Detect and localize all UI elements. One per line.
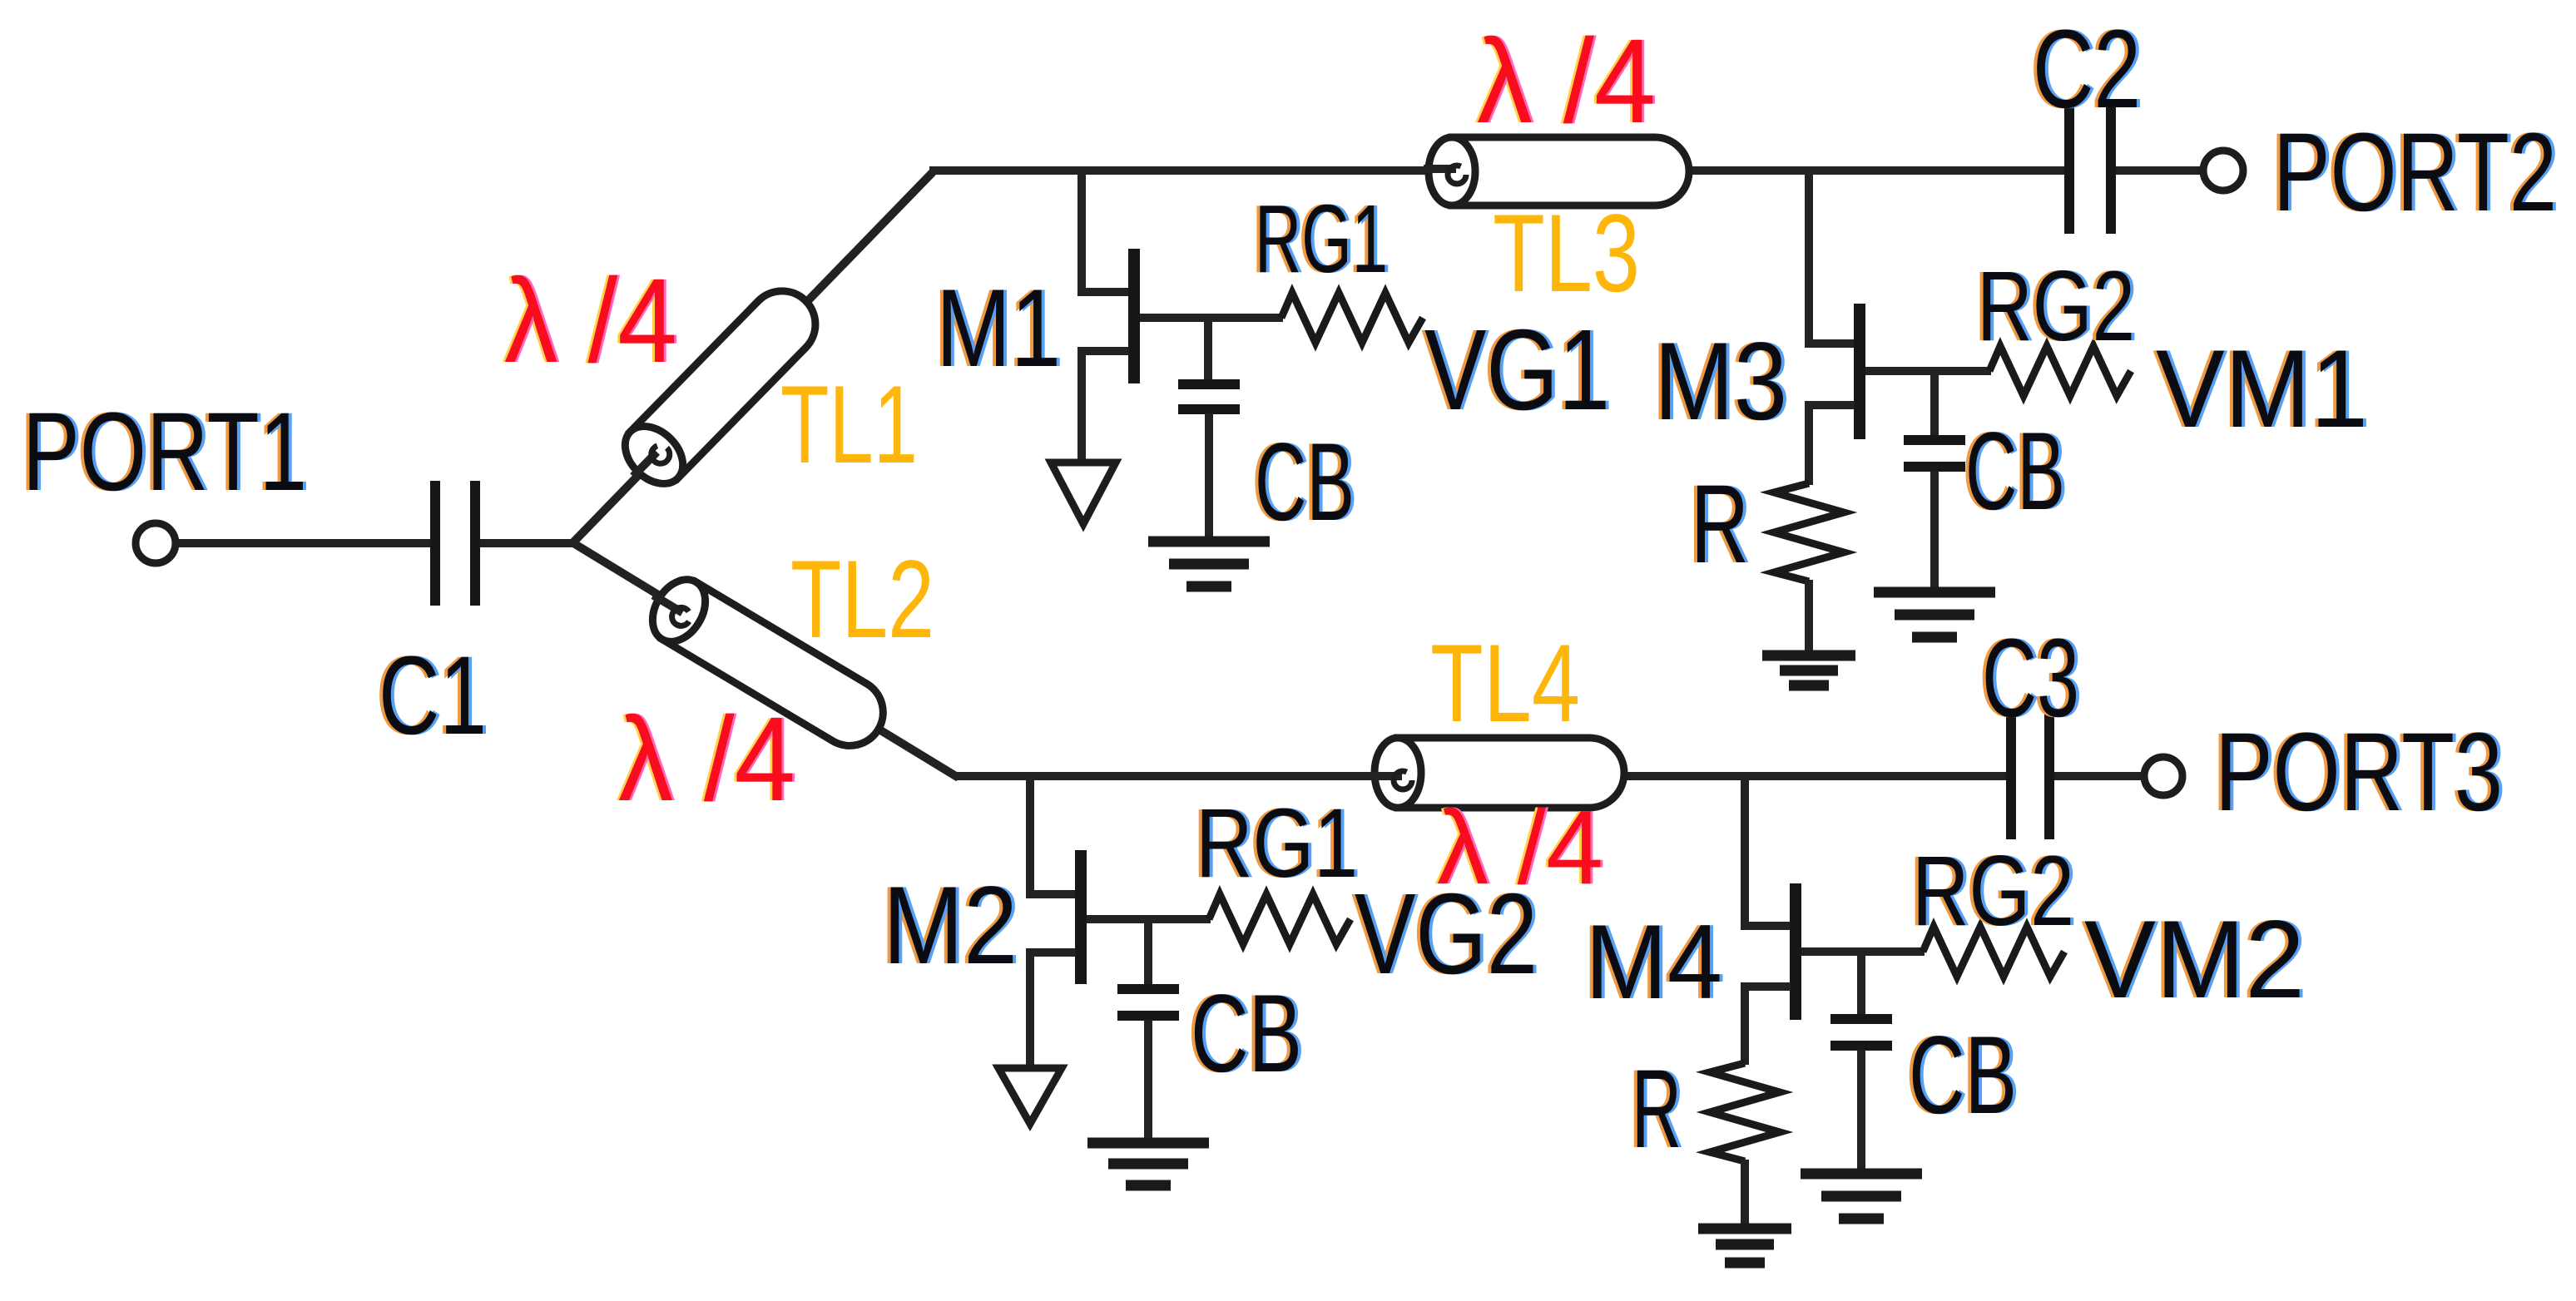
ground arrow at M1 source [1051, 463, 1116, 524]
wire M1 gate to CB [1204, 318, 1212, 381]
label R M4 [1628, 1047, 1685, 1171]
label PORT2 [2270, 111, 2560, 235]
wire M3 gate to CB [1930, 371, 1939, 437]
capacitor C3 [2011, 713, 2049, 839]
capacitor CB (M1) [1178, 384, 1240, 540]
label C1 [375, 634, 490, 758]
transmission line TL2 [637, 566, 896, 758]
svg-text:TL4: TL4 [1430, 622, 1580, 745]
wire top rail [929, 166, 2067, 175]
label CB M1 [1251, 421, 1358, 544]
label RG1 bottom [1192, 789, 1361, 898]
ground under CB (M1) [1148, 542, 1270, 586]
wire bottom rail [955, 772, 2008, 780]
label M2 [879, 864, 1021, 987]
transistor M3 [1809, 171, 1991, 485]
label lambda/4 TL3 [1474, 14, 1658, 148]
label CB M4 [1905, 1014, 2020, 1137]
label TL3 [1493, 192, 1640, 315]
resistor R (M3) [1774, 483, 1844, 652]
wire C1 to junction node [479, 539, 574, 547]
label TL2 [790, 538, 934, 661]
svg-text:TL1: TL1 [780, 364, 918, 487]
capacitor C1 [435, 481, 475, 606]
wire C2 to PORT2 [2113, 166, 2205, 175]
transistor M4 [1745, 776, 1925, 1065]
ground under CB (M4) [1801, 1174, 1922, 1219]
svg-text:TL2: TL2 [790, 538, 934, 661]
wire junction to TL1 to top rail (diagonal) [571, 172, 933, 545]
port terminal PORT2 [2203, 151, 2243, 190]
label RG2 top [1974, 250, 2138, 362]
label R M3 [1687, 463, 1752, 586]
port terminal PORT3 [2144, 757, 2182, 795]
resistor RG1 (bottom) [1209, 894, 1350, 944]
label VM2 [2081, 898, 2308, 1022]
ground under CB (M2) [1087, 1143, 1209, 1185]
resistor RG2 (bottom) [1923, 927, 2064, 977]
ground under CB (M3) [1874, 592, 1995, 637]
wire M4 gate to CB [1857, 952, 1865, 1016]
label TL4 [1430, 622, 1580, 745]
wire junction to TL2 to bottom rail (diagonal) [571, 542, 959, 778]
svg-text:TL3: TL3 [1493, 192, 1640, 315]
label VM1 [2152, 328, 2371, 451]
label TL1 [780, 364, 918, 487]
label C2 [2029, 7, 2144, 131]
label PORT1 [19, 390, 310, 514]
label VG1 [1421, 306, 1613, 434]
label lambda/4 TL4 [1434, 789, 1606, 906]
svg-text:λ /4: λ /4 [618, 692, 795, 826]
label RG1 top [1251, 185, 1391, 293]
transistor M2 [1030, 776, 1211, 1070]
svg-text:λ /4: λ /4 [504, 254, 677, 388]
label lambda/4 TL1 [502, 254, 680, 388]
capacitor CB (M2) [1117, 989, 1179, 1141]
ground arrow at M2 source [998, 1068, 1062, 1124]
wire C3 to PORT3 [2052, 772, 2145, 780]
svg-text:λ /4: λ /4 [1437, 789, 1603, 906]
label VG2 [1351, 870, 1541, 998]
port terminal PORT1 [136, 523, 176, 563]
label RG2 bottom [1909, 835, 2078, 947]
transistor M1 [1082, 171, 1283, 463]
label CB M3 [1962, 410, 2068, 533]
label C3 [1979, 616, 2083, 740]
label CB M2 [1187, 972, 1305, 1096]
transmission line TL3 [1424, 137, 1689, 205]
ground under R (M4) [1698, 1229, 1791, 1263]
capacitor C2 [2069, 107, 2111, 234]
resistor RG2 (top) [1989, 346, 2131, 396]
capacitor CB (M4) [1830, 1019, 1892, 1172]
svg-text:λ /4: λ /4 [1477, 14, 1656, 148]
transmission line TL4 [1370, 738, 1624, 808]
label lambda/4 TL2 [616, 692, 798, 826]
label M3 [1651, 320, 1791, 443]
transmission line TL1 [609, 277, 829, 499]
label PORT3 [2212, 710, 2506, 834]
wire M2 gate to CB [1144, 919, 1152, 986]
label M4 [1582, 903, 1726, 1021]
wire PORT1 to C1 [176, 539, 433, 547]
capacitor CB (M3) [1904, 440, 1965, 591]
resistor RG1 (top) [1281, 293, 1423, 343]
resistor R (M4) [1710, 1063, 1780, 1225]
label M1 [933, 267, 1064, 390]
ground under R (M3) [1762, 655, 1855, 685]
